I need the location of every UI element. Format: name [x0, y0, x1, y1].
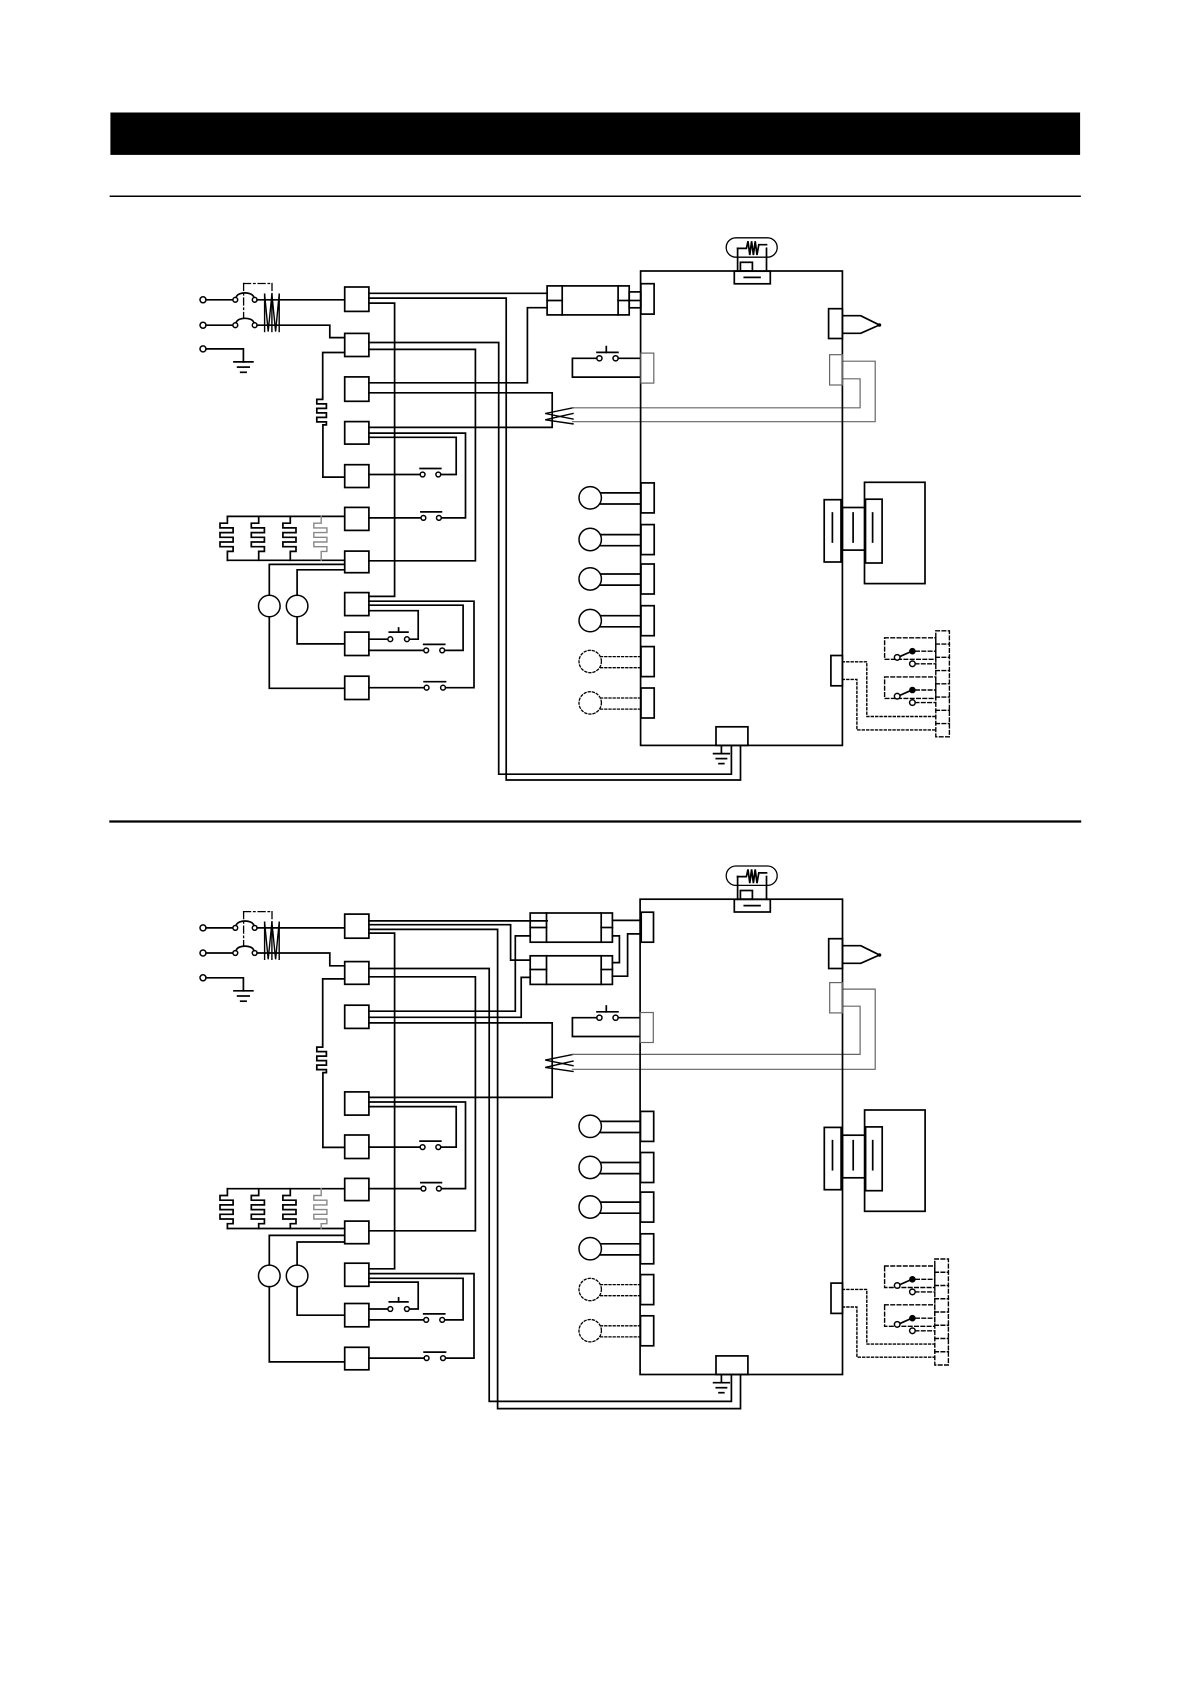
connector CN6: [345, 507, 369, 530]
connector CN4: [345, 422, 369, 445]
relay contact box 2 (dashed): [885, 1305, 935, 1327]
relay contact 1 moving: [900, 652, 911, 657]
PCB outline: [641, 271, 843, 745]
monitor switch: [424, 1313, 445, 1315]
heater element R2: [251, 1189, 264, 1229]
heater bus (top): [227, 515, 344, 517]
indicator lamp 2: [601, 1162, 641, 1164]
heater element R3: [283, 516, 296, 560]
indicator lamp 3: [601, 573, 641, 575]
wire CN2 to CN7: [369, 977, 476, 1231]
wire CN10 to interlock switch: [369, 687, 424, 689]
PCB tab (transformer input): [641, 912, 653, 942]
connector CN7: [345, 551, 369, 573]
relay contact 1 NC: [910, 661, 916, 667]
relay contact 2 NC: [910, 1328, 916, 1334]
wire T2 out lower to PCB tab: [612, 934, 641, 976]
harness wire lower (to PCB tab): [573, 989, 876, 1069]
wire M2 to CN9: [297, 1287, 345, 1316]
door sensing switch: [605, 1006, 607, 1012]
thermal fuse assembly: [726, 866, 777, 885]
faston arrow 2: [545, 1061, 573, 1071]
heater bus (top): [227, 1188, 344, 1190]
dotted wire relay 1: [843, 1289, 935, 1344]
PCB tab (lamp 6): [641, 688, 654, 718]
PCB ground symbol: [720, 745, 722, 753]
wire CN2 to thermistor: [323, 353, 345, 397]
wire M2 to CN9: [297, 617, 345, 644]
connector CN4: [345, 1092, 369, 1115]
PCB tab (lamp 5): [641, 647, 654, 677]
motor M2: [286, 595, 308, 617]
relay contact box 2 (dashed): [885, 677, 936, 699]
indicator lamp 4: [601, 615, 641, 617]
wire S1b to CN box2: [257, 325, 345, 337]
PCB tab (relay out): [831, 1283, 843, 1313]
PCB tab (lamp 3): [641, 1192, 654, 1222]
harness wire upper (to PCB tab): [573, 1006, 861, 1054]
wire CN4 to door switch B: [369, 1102, 466, 1189]
wire CN5 to door switch A: [369, 1146, 420, 1148]
top rule under title: [110, 195, 1080, 197]
heater bus (bottom): [227, 1228, 344, 1230]
PCB tab (lamp 1): [641, 1111, 654, 1141]
wire CN8 to interlock switch (bottom): [369, 601, 474, 688]
wire T1 out upper to PCB tab: [612, 919, 641, 921]
PCB tab (lamp 2): [641, 525, 654, 555]
wire GND terminal: [206, 349, 243, 362]
connector CN9: [345, 632, 369, 655]
wire L1 to switch: [206, 927, 233, 929]
indicator lamp 6 (optional, dotted): [601, 1325, 641, 1327]
ground symbol (input): [234, 361, 253, 363]
harness wire upper (to PCB tab): [573, 379, 861, 408]
connector CN9: [345, 1304, 369, 1327]
wire T1 secondary row2 to CN3: [369, 308, 547, 383]
terminal L1: [200, 297, 206, 303]
wire door switch right to PCB tab: [618, 1017, 640, 1019]
heater element R4 (optional, grey): [314, 1189, 327, 1229]
wire CN7 to motor M1: [269, 564, 344, 595]
indicator lamp 3: [601, 1201, 641, 1203]
connector CN3: [345, 1005, 369, 1028]
door switch B: [421, 511, 442, 513]
connector CN1: [345, 914, 369, 938]
wire CN1 to transformer T1 primary: [369, 920, 547, 922]
terminal GND: [200, 975, 206, 981]
motor M1: [259, 595, 281, 617]
wire S1b to CN box2: [257, 953, 345, 966]
switch S1a contacts: [233, 926, 238, 931]
connector CN2: [345, 333, 369, 356]
terminal L2: [200, 322, 206, 328]
relay contact 2 moving: [900, 691, 911, 696]
dotted wire relay 2: [843, 1307, 935, 1357]
middle separator rule: [110, 820, 1080, 822]
wire CN9 to monitor switch: [369, 1319, 424, 1321]
indicator lamp 6 (optional, dotted): [601, 697, 641, 699]
transformer T1: [530, 913, 612, 942]
thermistor TH1: [317, 1044, 327, 1147]
PCB tab (lamp 2): [641, 1153, 654, 1183]
thermistor TH1: [317, 397, 327, 478]
PCB tab (lamp 1): [641, 483, 654, 513]
dotted wire relay 1: [842, 662, 935, 717]
wire CN9 to monitor switch: [369, 649, 424, 651]
wire S1a to CN box1: [257, 299, 345, 301]
relay contact 2 NC: [910, 700, 916, 706]
switch S1b contacts: [233, 951, 238, 956]
title bar (black): [110, 113, 1080, 155]
door switch A: [420, 468, 441, 470]
wire CN7 to motor M2: [297, 1242, 345, 1265]
heater element R2: [251, 516, 264, 560]
switch S1a arc: [236, 293, 253, 297]
wire CN8 to monitor switch: [369, 605, 463, 650]
mechanical link (dash-dot): [243, 912, 245, 946]
heater element R1: [220, 516, 233, 560]
connector CN6: [345, 1178, 369, 1200]
transformer T1 output connector: [629, 292, 641, 308]
door switch B: [421, 1182, 442, 1184]
PCB tab (relay out): [831, 656, 843, 686]
fan motor assembly: [865, 482, 926, 583]
indicator lamp 5 (optional, dotted): [601, 1284, 641, 1286]
wire CN1 to PCB ground (outer): [369, 929, 741, 1408]
wire CN2 to thermistor: [323, 979, 345, 1044]
PCB outline: [640, 899, 842, 1374]
switch S1a contacts: [233, 297, 238, 302]
wire CN3 to CN4 (connector loop): [369, 393, 552, 428]
wire GND terminal: [206, 978, 243, 991]
wire CN2 to PCB ground (inner): [369, 343, 732, 775]
wire thermistor to CN5: [323, 1146, 345, 1148]
wire CN4 to door switch A: [369, 437, 456, 474]
connector CN10: [345, 1347, 369, 1370]
faston arrow 2: [545, 414, 573, 424]
indicator lamp 1: [601, 492, 641, 494]
relay contact 2 moving: [900, 1319, 911, 1324]
wire CN2 to PCB ground (inner): [369, 969, 732, 1402]
relay contact box 1 (dashed): [885, 1266, 935, 1288]
ground symbol (input): [234, 990, 253, 992]
PCB tab (lamp 3): [641, 564, 654, 594]
PCB tab (door switch): [640, 1013, 653, 1043]
wire CN5 to door switch A: [369, 474, 420, 476]
connector CN7: [345, 1221, 369, 1244]
push switch (start): [398, 628, 400, 632]
connector CN10: [345, 676, 369, 699]
PCB tab (lamp 4): [641, 606, 654, 636]
connector CN2: [345, 962, 369, 985]
connector CN3: [345, 377, 369, 401]
connector CN5: [345, 465, 369, 488]
wire CN8 to monitor switch: [369, 1278, 463, 1320]
interlock switch: [424, 1351, 445, 1353]
PCB tab (thermistor probe): [829, 309, 843, 339]
wire CN1 to CN8: [369, 933, 395, 1269]
transformer T1: [547, 286, 629, 315]
connector CN1: [345, 287, 369, 311]
wire CN8 to interlock switch (bottom): [369, 1274, 474, 1359]
faston arrow 1: [545, 1054, 573, 1065]
switch S1b arc: [236, 946, 253, 950]
wire CN6 to door switch B: [369, 1188, 421, 1190]
relay contact 1 moving: [900, 1280, 911, 1285]
motor M2: [286, 1265, 308, 1287]
wire CN1 to transformer T1 primary: [369, 292, 547, 294]
wire T1 out lower to T2 upper: [612, 936, 619, 963]
connector CN5: [345, 1135, 369, 1159]
switch S1a arc: [236, 921, 253, 925]
wire CN6 to door switch B: [369, 517, 421, 519]
wire CN4 to door switch A: [369, 1107, 456, 1148]
PCB tab (harness): [830, 983, 843, 1013]
fan motor assembly: [865, 1110, 926, 1211]
motor M1: [259, 1265, 281, 1287]
PCB tab (transformer input): [641, 284, 654, 314]
PCB ground symbol: [720, 1375, 722, 1383]
relay connector strip (dashed): [935, 1259, 949, 1365]
wire thermistor to CN5: [323, 476, 345, 478]
wire CN9 to push switch: [369, 638, 388, 640]
relay connector strip (dashed): [936, 631, 950, 737]
wire door switch left loop to PCB tab: [572, 358, 640, 377]
PCB tab (mains ground): [716, 727, 748, 746]
wire CN3 to CN4 (connector loop): [369, 1023, 552, 1098]
connector CN8: [345, 593, 369, 616]
PCB tab (lamp 4): [641, 1234, 654, 1264]
push switch (start): [398, 1298, 400, 1302]
switch S1b arc: [236, 318, 253, 322]
wire CN9 to push switch: [369, 1308, 388, 1310]
wire M1 to CN10: [269, 617, 344, 689]
wire L2 to switch: [206, 324, 233, 326]
temperature probe plug: [843, 946, 880, 964]
heater element R1: [220, 1189, 233, 1229]
wire CN10 to interlock switch: [369, 1357, 424, 1359]
wire CN1 to PCB ground (outer): [369, 298, 741, 780]
terminal L1: [200, 925, 206, 931]
transformer T2: [530, 956, 612, 985]
interlock switch: [424, 681, 445, 683]
door switch A: [420, 1140, 441, 1142]
monitor switch: [424, 643, 445, 645]
wire CN2 to CN7: [369, 349, 476, 560]
wire door switch right to PCB tab: [618, 357, 640, 359]
PCB tab (lamp 5): [641, 1275, 654, 1305]
line filter FL1 (zigzag): [264, 294, 266, 331]
switch S1b contacts: [233, 323, 238, 328]
PCB tab (thermistor probe): [829, 939, 843, 969]
relay contact box 1 (dashed): [885, 638, 936, 660]
wire S1a to CN box1: [257, 927, 345, 929]
wire CN8 to push switch: [369, 1282, 418, 1309]
wire door switch left loop to PCB tab: [572, 1018, 640, 1037]
wire T2 row2 to CN3 pin2: [369, 977, 530, 1017]
heater element R4 (optional, grey): [314, 516, 327, 560]
harness wire lower (to PCB tab): [573, 361, 876, 422]
relay contact 1 NC: [910, 1289, 916, 1295]
temperature probe plug: [842, 316, 879, 334]
wire T1 row2 to CN3 pin1: [369, 936, 530, 1011]
wire CN8 to push switch: [369, 611, 418, 640]
wire CN7 to motor M1: [269, 1235, 344, 1265]
PCB tab (harness): [830, 355, 843, 385]
heater element R3: [283, 1189, 296, 1229]
door sensing switch: [605, 347, 607, 353]
connector CN8: [345, 1263, 369, 1286]
indicator lamp 4: [601, 1243, 641, 1245]
heater bus (bottom): [227, 559, 344, 561]
wire M1 to CN10: [269, 1287, 344, 1362]
mechanical link (dash-dot): [243, 284, 245, 318]
indicator lamp 5 (optional, dotted): [601, 656, 641, 658]
indicator lamp 1: [601, 1120, 641, 1122]
wire CN1 to CN8: [369, 303, 395, 596]
PCB tab (door switch): [641, 353, 654, 383]
wire CN7 to motor M2: [297, 570, 345, 595]
wire CN1 to T2 primary: [369, 925, 530, 960]
terminal GND: [200, 346, 206, 352]
faston arrow 1: [545, 408, 573, 419]
dotted wire relay 2: [842, 679, 935, 730]
wire CN4 to door switch B: [369, 433, 466, 518]
PCB tab (mains ground): [716, 1356, 748, 1375]
wire L2 to switch: [206, 952, 233, 954]
line filter FL1 (zigzag): [264, 922, 266, 959]
indicator lamp 2: [601, 534, 641, 536]
thermal fuse assembly: [726, 238, 777, 257]
wire L1 to switch: [206, 299, 233, 301]
terminal L2: [200, 950, 206, 956]
PCB tab (lamp 6): [641, 1316, 654, 1346]
